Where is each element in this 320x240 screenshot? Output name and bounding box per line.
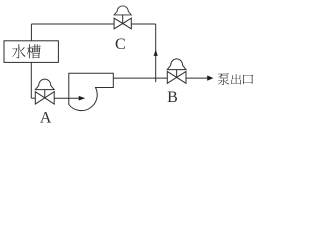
arrow pump outlet (207, 75, 213, 80)
valve C bowtie (114, 18, 131, 29)
valve C stem (122, 15, 124, 24)
text 水槽 (12, 44, 25, 58)
valve A dome (35, 79, 54, 90)
wire top line right of valve C (131, 23, 155, 25)
wire valve B to outlet arrow (186, 77, 208, 79)
valve B dome (167, 59, 186, 70)
pump volute (69, 73, 114, 110)
wire suction line to pump (31, 97, 35, 99)
arrow into pump (79, 96, 86, 101)
wire pump outlet main line (113, 77, 167, 79)
valve A bowtie (35, 92, 54, 104)
valve A stem (44, 89, 46, 98)
wire valve A to pump (54, 97, 79, 99)
wire tank bottom down-pipe (30, 62, 32, 98)
svg-text:C: C (115, 36, 126, 53)
valve B stem (176, 70, 178, 78)
arrow up on riser (154, 50, 158, 56)
text 泵出口 (218, 73, 230, 85)
valve C dome (114, 6, 131, 15)
tank 水槽 box (4, 41, 58, 63)
wire right riser down to junction (155, 24, 157, 82)
svg-text:B: B (167, 89, 178, 106)
valve B bowtie (167, 71, 186, 83)
wire top line (31, 23, 114, 25)
wire tank riser to top line (30, 24, 32, 41)
svg-text:A: A (40, 109, 52, 126)
